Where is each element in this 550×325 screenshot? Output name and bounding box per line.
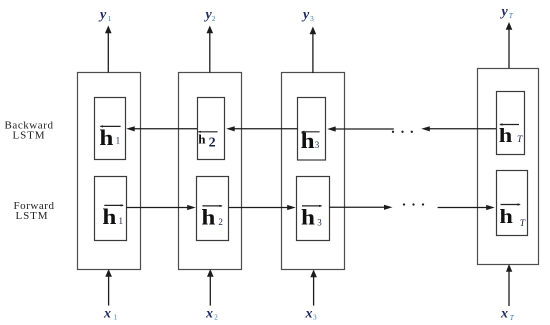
forward cell box 1 — [95, 177, 127, 241]
label h-bar-1 backward cell 1 — [99, 125, 120, 150]
wire input arrow x1 — [105, 269, 112, 306]
outer box column 4 — [478, 69, 539, 265]
label x1 — [103, 307, 118, 322]
backward cell box 1 — [95, 98, 126, 160]
outer box column 3 — [282, 73, 345, 270]
svg-text:T: T — [517, 135, 523, 145]
forward cell box 4 — [497, 171, 528, 236]
svg-text:h: h — [201, 205, 215, 230]
label h-bar-2 backward cell 2 — [198, 131, 218, 151]
svg-text:h: h — [499, 125, 513, 147]
wire forward arrow dots to box4 — [438, 205, 495, 210]
ellipsis dots forward row — [403, 203, 424, 205]
svg-text:h: h — [198, 132, 206, 147]
wire output arrow y2 — [207, 26, 214, 73]
wire backward arrow box4 to dots — [421, 126, 496, 131]
label Forward LSTM — [13, 200, 54, 222]
wire input arrow x2 — [207, 269, 214, 306]
svg-text:2: 2 — [212, 15, 216, 23]
svg-text:3: 3 — [310, 15, 314, 23]
wire output arrow y3 — [310, 27, 317, 74]
svg-text:y: y — [301, 8, 310, 23]
svg-text:1: 1 — [116, 136, 121, 146]
wire backward arrow box2 to box1 — [126, 126, 197, 131]
svg-text:3: 3 — [315, 140, 320, 150]
label h-arrow-2 forward cell 2 — [201, 205, 223, 230]
svg-text:h: h — [301, 205, 315, 230]
label y2 — [204, 8, 216, 23]
svg-text:T: T — [509, 12, 514, 20]
svg-text:x: x — [500, 307, 508, 322]
wire forward arrow box1 to box2 — [127, 205, 196, 210]
wire forward arrow box3 to dots — [329, 205, 392, 210]
svg-text:1: 1 — [114, 314, 118, 322]
forward cell box 2 — [197, 177, 229, 241]
svg-text:1: 1 — [108, 15, 112, 23]
svg-text:2: 2 — [209, 136, 216, 151]
label Backward LSTM — [5, 120, 54, 142]
label y1 — [98, 8, 112, 23]
svg-text:1: 1 — [119, 216, 124, 226]
label x2 — [205, 307, 218, 322]
wire output arrow y1 — [105, 26, 112, 73]
wire output arrow yT — [506, 22, 513, 68]
svg-text:h: h — [301, 128, 315, 153]
svg-text:y: y — [98, 8, 107, 23]
svg-text:T: T — [520, 219, 526, 229]
label h-arrow-3 forward cell 3 — [301, 205, 322, 230]
backward cell box 3 — [298, 98, 326, 161]
label h-arrow-1 forward cell 1 — [102, 204, 124, 229]
label y3 — [301, 8, 314, 23]
label h-bar-3 backward cell 3 — [301, 128, 320, 153]
svg-text:h: h — [99, 125, 113, 150]
label h-bar-T backward cell 4 — [499, 123, 523, 147]
svg-text:x: x — [305, 307, 313, 322]
backward cell box 4 — [497, 92, 525, 155]
svg-text:2: 2 — [218, 217, 223, 227]
label yT — [500, 5, 514, 20]
svg-text:x: x — [103, 307, 111, 322]
svg-text:3: 3 — [313, 314, 317, 322]
ellipsis dots backward row — [392, 131, 413, 133]
svg-text:y: y — [500, 5, 509, 20]
label x3 — [305, 307, 318, 322]
backward cell box 2 — [198, 98, 225, 160]
wire backward arrow dots to box3 — [327, 126, 394, 131]
forward cell box 3 — [297, 177, 330, 241]
svg-text:LSTM: LSTM — [13, 130, 46, 142]
wire input arrow x3 — [310, 270, 317, 306]
svg-text:2: 2 — [214, 314, 218, 322]
svg-text:h: h — [102, 204, 116, 229]
label h-arrow-T forward cell 4 — [499, 203, 525, 229]
svg-text:h: h — [499, 206, 512, 228]
wire forward arrow box2 to box3 — [229, 205, 296, 210]
wire backward arrow box3 to box2 — [226, 126, 297, 131]
outer box column 2 — [179, 73, 242, 270]
svg-text:LSTM: LSTM — [16, 210, 49, 222]
label xT — [500, 307, 515, 322]
svg-text:x: x — [205, 307, 213, 322]
outer box column 1 — [78, 73, 141, 270]
wire input arrow xT — [506, 264, 512, 306]
svg-text:3: 3 — [317, 218, 322, 228]
svg-text:T: T — [510, 314, 515, 322]
